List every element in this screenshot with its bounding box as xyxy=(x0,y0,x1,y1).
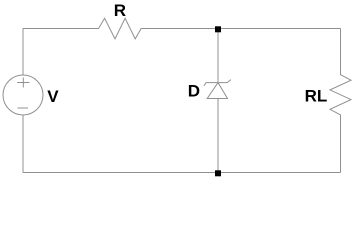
svg-text:R: R xyxy=(114,1,126,20)
svg-text:RL: RL xyxy=(305,86,328,105)
svg-text:V: V xyxy=(47,87,59,106)
svg-text:D: D xyxy=(188,82,200,101)
